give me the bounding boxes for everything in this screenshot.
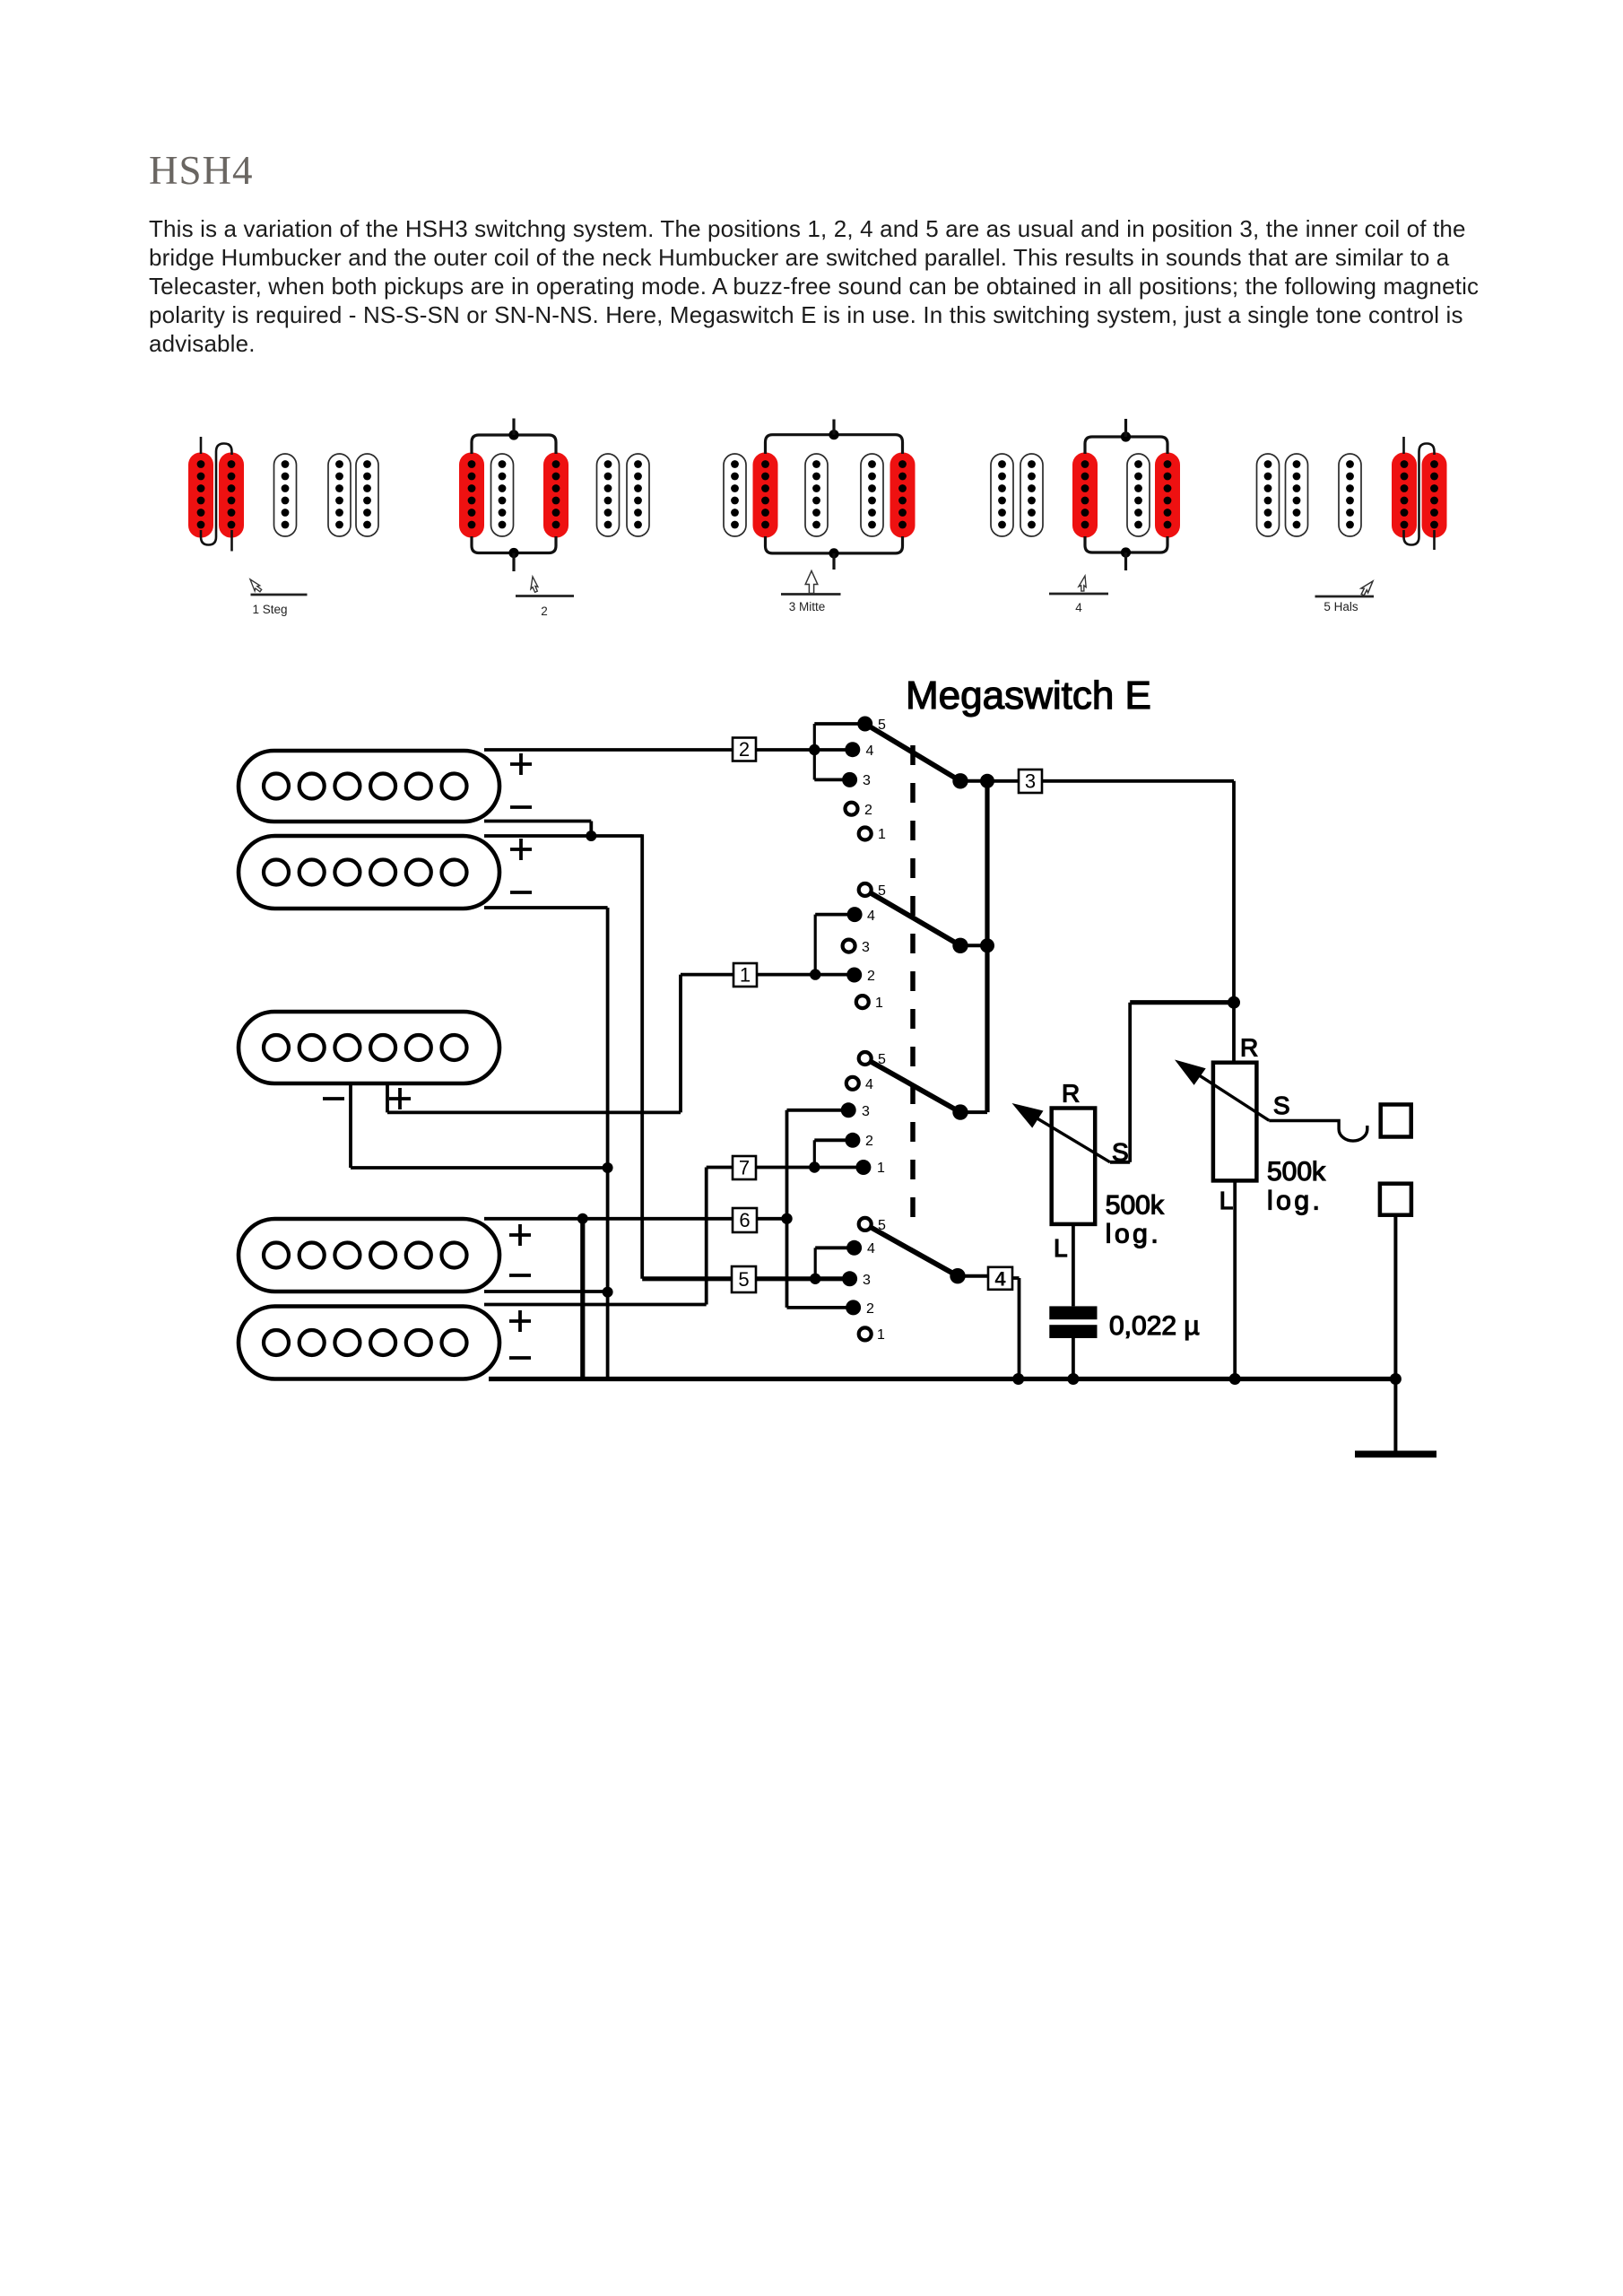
position 5 bridge humbucker coil B xyxy=(1286,454,1308,536)
section 2 pole contact xyxy=(952,938,968,953)
svg-text:3: 3 xyxy=(863,1273,871,1288)
P2 polarity plus xyxy=(510,839,532,860)
svg-text:4: 4 xyxy=(994,1268,1006,1291)
wire: neck humbucker series link vertical xyxy=(580,1219,585,1379)
svg-text:2: 2 xyxy=(739,738,750,761)
position 4 bottom lead xyxy=(1124,552,1127,570)
P5 polarity minus xyxy=(509,1356,531,1360)
P3 polarity minus xyxy=(323,1097,344,1100)
wire: VR1 wiper to wire 3 node xyxy=(1110,1161,1130,1164)
position 4 selector cursor xyxy=(1078,575,1089,592)
wire: P3 minus lead xyxy=(349,1082,352,1168)
position 4 parallel loop bottom xyxy=(1085,536,1167,552)
svg-text:4: 4 xyxy=(865,1077,873,1092)
heading HSH4 xyxy=(149,147,254,194)
svg-text:log.: log. xyxy=(1106,1220,1161,1249)
svg-text:3 Mitte: 3 Mitte xyxy=(789,600,826,613)
tag box 3 xyxy=(1019,770,1042,793)
position 2 top lead xyxy=(512,419,515,436)
position 3 neck humbucker coil B (red) xyxy=(890,453,916,538)
section 4 contact 5 xyxy=(859,1218,872,1231)
section 1 pole lever xyxy=(870,726,961,781)
tag box 7 xyxy=(733,1156,756,1179)
junction pole/common bus xyxy=(980,774,994,788)
svg-text:0,022 µ: 0,022 µ xyxy=(1109,1311,1200,1341)
section 2 contact 1 xyxy=(856,996,869,1008)
section 3 contact 5 xyxy=(859,1052,872,1065)
capacitor C1 plate 2 xyxy=(1049,1325,1097,1338)
svg-text:S: S xyxy=(1273,1091,1290,1119)
junction wire2/bracket xyxy=(809,744,820,755)
volume potentiometer VR2 body 500k log xyxy=(1213,1063,1257,1181)
P1 polarity plus xyxy=(510,753,532,775)
svg-text:1: 1 xyxy=(877,1327,885,1343)
pickup P2 bridge humbucker coil 2 xyxy=(239,836,499,909)
svg-text:4: 4 xyxy=(866,744,874,759)
svg-text:2: 2 xyxy=(867,969,875,984)
position 2 bottom lead xyxy=(512,553,515,572)
output jack sleeve contact xyxy=(1380,1184,1411,1215)
junction P3 minus on ground riser xyxy=(603,1162,613,1173)
position 1 selector cursor xyxy=(247,577,263,594)
position 1 middle single coil xyxy=(274,454,297,536)
position 2 bridge humbucker coil A (red) xyxy=(459,453,484,538)
tone potentiometer VR1 body 500k log xyxy=(1052,1109,1096,1224)
svg-text:1: 1 xyxy=(878,827,886,842)
svg-text:2: 2 xyxy=(865,1134,873,1149)
svg-text:Megaswitch E: Megaswitch E xyxy=(906,674,1151,717)
svg-text:5 Hals: 5 Hals xyxy=(1324,600,1358,613)
section 1 pole link xyxy=(960,779,987,783)
position 2 bottom junction xyxy=(508,548,518,558)
svg-text:2: 2 xyxy=(864,803,872,818)
wire: VR2 L to ground bus xyxy=(1233,1180,1237,1378)
position 3 top lead xyxy=(832,420,835,435)
VR2 value 500k log. xyxy=(1267,1157,1326,1216)
svg-text:3: 3 xyxy=(863,773,871,788)
section 4 contact 2 xyxy=(846,1300,861,1315)
position 5 neck humbucker coil A (red) xyxy=(1392,453,1417,538)
position 3 selector line xyxy=(781,593,841,596)
position 3 selector arrow xyxy=(805,571,818,594)
section 1 bracket contacts 5-4-3 xyxy=(814,722,864,726)
position 4 middle single coil (red) xyxy=(1072,453,1098,538)
svg-text:500k: 500k xyxy=(1267,1157,1326,1187)
position 4 bridge humbucker coil B xyxy=(1020,454,1043,536)
section 2 contact 4 xyxy=(847,907,863,922)
position 1 neck humbucker coil B xyxy=(356,454,378,536)
position 3 bottom lead xyxy=(832,553,835,570)
section 4 pole contact xyxy=(950,1268,965,1283)
wire 7: to switch section 3 contacts 1,2 xyxy=(707,1166,864,1170)
svg-text:5: 5 xyxy=(738,1268,749,1291)
wire 5 riser: bridge series link down to tag 5 xyxy=(640,834,644,1279)
junction wire1/bracket xyxy=(810,969,820,979)
P4 polarity plus xyxy=(509,1224,531,1246)
svg-text:4: 4 xyxy=(1075,601,1082,614)
position 2 parallel loop top xyxy=(472,435,556,454)
section 3 contact 4 xyxy=(846,1077,859,1090)
tag box 1 xyxy=(733,963,757,987)
wire 2: pickup P1 plus to switch section 1 xyxy=(484,748,853,752)
section 1 pole contact xyxy=(952,773,968,788)
position 2 neck humbucker coil B xyxy=(627,454,649,536)
section 2 contact 2 xyxy=(846,968,862,983)
description paragraph xyxy=(149,214,1479,358)
svg-text:2: 2 xyxy=(541,604,548,618)
position 3 bottom junction xyxy=(829,548,838,558)
junction wire5/bracket xyxy=(810,1274,820,1284)
ground symbol xyxy=(1355,1451,1436,1458)
ground net: P2 minus riser xyxy=(484,906,608,909)
wire: cross link to section 4 contact 2 xyxy=(787,1306,854,1309)
wire: P5 plus lead to wire 7 riser xyxy=(484,1303,707,1307)
position 1 neck humbucker coil A xyxy=(328,454,351,536)
svg-text:6: 6 xyxy=(739,1209,750,1231)
position 4 bridge humbucker coil A xyxy=(991,454,1013,536)
section 4 contact 3 xyxy=(842,1271,857,1286)
wire: sleeve to ground bus xyxy=(1393,1215,1397,1379)
position 1 bridge humbucker coil A (red) xyxy=(188,453,213,538)
VR1 value 500k log. xyxy=(1106,1190,1165,1248)
P3 polarity plus xyxy=(389,1088,411,1109)
ground bus along bottom xyxy=(489,1377,1395,1381)
wire: C1 to ground bus xyxy=(1072,1338,1075,1379)
junction pole2/common bus xyxy=(980,938,994,952)
P4 polarity minus xyxy=(509,1274,531,1277)
svg-text:3: 3 xyxy=(1025,770,1036,793)
section 3 bracket contacts 2-1 xyxy=(814,1138,853,1142)
section 2 pole lever xyxy=(871,893,960,946)
pickup P3 middle single coil xyxy=(239,1012,499,1083)
position 4 top junction xyxy=(1121,431,1131,441)
output jack tip contact xyxy=(1381,1105,1411,1137)
wire 3: common bus to volume pot R xyxy=(987,779,1234,783)
section 3 pole lever xyxy=(871,1062,960,1113)
section 3 contact 2 xyxy=(845,1133,860,1148)
svg-text:500k: 500k xyxy=(1106,1190,1165,1220)
position 4 bottom junction xyxy=(1121,547,1131,557)
pickup P5 neck humbucker coil 2 xyxy=(239,1307,499,1379)
position 4 parallel loop top xyxy=(1085,437,1167,454)
position 3 middle single coil xyxy=(805,454,828,536)
svg-text:R: R xyxy=(1062,1080,1080,1108)
svg-text:L: L xyxy=(1054,1234,1068,1262)
switch common bus vertical xyxy=(985,781,989,1112)
VR2 wiper arrow xyxy=(1192,1071,1269,1121)
position 2 middle single coil (red) xyxy=(543,453,568,538)
section 4 contact labels xyxy=(863,1218,886,1343)
wire 5: to switch section 4 contact 3 xyxy=(642,1276,849,1281)
position 1 lead wire in xyxy=(200,437,203,454)
svg-text:1: 1 xyxy=(877,1161,885,1176)
section 1 contact 3 xyxy=(842,772,857,787)
position 2 top junction xyxy=(508,430,518,439)
svg-text:R: R xyxy=(1240,1034,1258,1062)
junction sleeve/ground bus xyxy=(1390,1373,1402,1385)
section 3 contact 3 xyxy=(841,1102,856,1118)
svg-text:2: 2 xyxy=(866,1301,874,1317)
position 4 neck humbucker coil A xyxy=(1127,454,1150,536)
junction C1/ground bus xyxy=(1067,1373,1079,1385)
position 1 series link wire xyxy=(201,444,232,545)
section 2 bracket contacts 4-2 xyxy=(815,913,855,917)
wire: ground bus to ground symbol xyxy=(1393,1379,1397,1452)
position 3 bridge humbucker coil B (red) xyxy=(753,453,778,538)
position 4 neck humbucker coil B (red) xyxy=(1155,453,1180,538)
section 2 pole link xyxy=(960,944,987,947)
section 3 pole link xyxy=(960,1110,987,1114)
position 2 neck humbucker coil A xyxy=(597,454,620,536)
P2 polarity minus xyxy=(510,891,532,894)
junction wire7/bracket xyxy=(809,1161,820,1172)
section 1 contact labels xyxy=(863,717,886,842)
position 1 selector line xyxy=(251,594,308,596)
tag box 4 xyxy=(988,1267,1012,1291)
section 2 contact 3 xyxy=(843,940,855,952)
wire: VR1 L to capacitor xyxy=(1072,1224,1075,1307)
position 5 lead wire out xyxy=(1433,530,1436,550)
pickup P4 neck humbucker coil 1 xyxy=(239,1219,499,1291)
position 2 selector line xyxy=(516,595,574,597)
position 5 selector line xyxy=(1315,596,1375,598)
tag box 2 xyxy=(733,738,756,761)
wire: P1 minus to P2 plus (series link bridge humbucker) xyxy=(484,820,591,823)
junction P4 minus on ground riser xyxy=(603,1287,613,1298)
section 4 contact 4 xyxy=(846,1240,862,1256)
svg-text:1: 1 xyxy=(740,964,751,987)
junction wire6/cross link xyxy=(781,1213,792,1224)
P1 polarity minus xyxy=(510,805,532,809)
svg-text:3: 3 xyxy=(862,940,870,955)
section 4 pole link xyxy=(958,1274,988,1278)
svg-text:L: L xyxy=(1219,1187,1234,1214)
position 5 neck humbucker coil B (red) xyxy=(1422,453,1447,538)
section 4 contact 1 xyxy=(859,1327,872,1340)
position 3 neck humbucker coil A xyxy=(861,454,883,536)
position 5 series link wire xyxy=(1404,444,1435,545)
svg-text:1 Steg: 1 Steg xyxy=(252,603,287,616)
position 3 top junction xyxy=(829,430,838,439)
svg-text:1: 1 xyxy=(875,996,883,1011)
wire: P4 minus lead xyxy=(484,1290,608,1293)
position 1 bridge humbucker coil B (red) xyxy=(219,453,244,538)
svg-text:4: 4 xyxy=(867,909,875,924)
position 1 lead wire out xyxy=(230,530,233,552)
position 3 bridge humbucker coil A xyxy=(724,454,746,536)
position 2 selector cursor xyxy=(530,577,539,593)
VR1 wiper arrow xyxy=(1027,1112,1110,1162)
position 5 lead wire in xyxy=(1402,437,1405,454)
P5 polarity plus xyxy=(509,1310,531,1332)
position 5 bridge humbucker coil A xyxy=(1257,454,1280,536)
position 4 selector line xyxy=(1049,593,1108,596)
position 2 bridge humbucker coil B xyxy=(491,454,514,536)
section 3 contact 1 xyxy=(855,1160,871,1175)
section 1 contact 2 xyxy=(846,803,858,815)
wire: section 3 contact 3 to cross link xyxy=(787,1109,849,1112)
section 3 pole contact xyxy=(952,1104,968,1119)
section 1 contact 1 xyxy=(859,828,872,840)
pickup P1 bridge humbucker coil 1 xyxy=(239,751,499,822)
position 5 selector cursor xyxy=(1358,578,1376,596)
junction series link on wire 6 xyxy=(577,1213,588,1224)
switch frame dashed line xyxy=(910,745,916,1230)
section 1 contact 5 xyxy=(857,717,872,732)
section 2 contact 5 xyxy=(859,883,872,896)
junction VR2/ground bus xyxy=(1229,1373,1241,1385)
tag box 5 xyxy=(732,1266,756,1292)
svg-text:4: 4 xyxy=(867,1241,875,1257)
section 4 bracket contacts 4-3 xyxy=(815,1246,854,1249)
section 4 pole lever xyxy=(871,1227,958,1275)
capacitor C1 0,022u plate 1 xyxy=(1049,1306,1097,1319)
section 3 contact labels xyxy=(862,1052,886,1176)
section 1 contact 4 xyxy=(845,742,860,757)
position 4 top lead xyxy=(1124,419,1127,437)
position 3 parallel loop top xyxy=(766,435,903,454)
tag box 6 xyxy=(733,1208,757,1232)
cross link vertical (contact3 / wire6 / section4 contact2) xyxy=(785,1110,789,1308)
junction wire4/ground bus xyxy=(1012,1373,1024,1385)
wire 6: P4 plus / series link tap xyxy=(484,1217,787,1221)
position 5 middle single coil xyxy=(1339,454,1361,536)
section 2 contact labels xyxy=(862,883,886,1011)
wire 1: pickup P3 plus to switch section 2 contact 2 xyxy=(386,1082,389,1112)
svg-text:7: 7 xyxy=(739,1157,750,1179)
svg-text:log.: log. xyxy=(1267,1187,1323,1216)
position 2 parallel loop bottom xyxy=(472,536,556,553)
svg-text:3: 3 xyxy=(862,1104,870,1119)
position 3 parallel loop bottom xyxy=(766,536,903,553)
wire 4: to ground bus xyxy=(1012,1276,1020,1280)
junction wire3 / tone wiper xyxy=(1228,996,1240,1009)
junction P1-/P2+ xyxy=(586,831,596,841)
wire: VR2 wiper to output jack hook xyxy=(1269,1121,1367,1142)
